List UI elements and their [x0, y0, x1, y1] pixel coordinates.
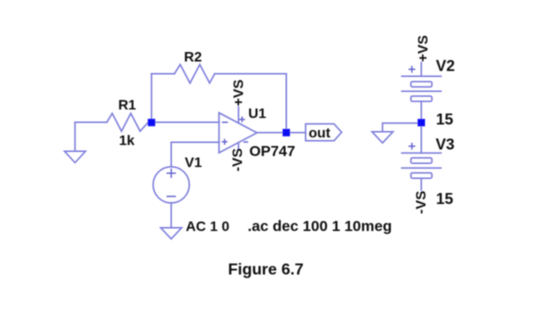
wire (V1 plus to op-amp non-inverting input) — [171, 142, 219, 166]
svg-text:-VS: -VS — [413, 191, 429, 214]
svg-text:-VS: -VS — [229, 148, 245, 171]
ground (right, supply mid-point) — [372, 132, 393, 143]
svg-text:15: 15 — [436, 191, 454, 208]
pin stub (V- power pin) — [238, 143, 240, 150]
svg-text:R2: R2 — [184, 49, 202, 65]
wire (V3 minus to -VS stub) — [420, 178, 422, 190]
marker + (V3 positive) — [409, 144, 414, 149]
marker + (V2 positive) — [409, 67, 414, 72]
svg-text:1k: 1k — [119, 132, 135, 148]
svg-text:AC 1 0: AC 1 0 — [186, 218, 230, 234]
wire (R2 left rail) — [152, 73, 175, 75]
voltage source V1 — [153, 167, 189, 203]
wire (mid node to right ground) — [383, 123, 418, 132]
svg-text:R1: R1 — [118, 96, 136, 112]
wire (node A to op-amp inverting input) — [155, 121, 219, 123]
pin marker - (inverting input) — [223, 121, 228, 123]
resistor R2 — [174, 65, 214, 84]
wire (+VS stub to V2) — [420, 63, 422, 77]
node mid (V2/V3 junction) — [418, 119, 425, 126]
wire (V2 minus to mid node) — [420, 101, 422, 119]
pin marker - (V- pin) — [244, 141, 247, 143]
ground (left, input side) — [65, 122, 86, 162]
node out (output junction) — [283, 129, 290, 136]
battery V3 — [402, 153, 441, 178]
svg-text:out: out — [309, 125, 331, 141]
svg-text:15: 15 — [436, 111, 454, 128]
wire (V1 minus to ground) — [170, 203, 172, 227]
resistor R1 — [107, 113, 148, 131]
net flag out — [306, 124, 342, 141]
svg-text:V3: V3 — [436, 137, 455, 154]
wire (left ground to R1) — [75, 121, 107, 123]
wire (node out to out flag) — [290, 132, 306, 134]
svg-text:+VS: +VS — [230, 79, 246, 106]
svg-text:V1: V1 — [185, 154, 202, 170]
op-amp U1 — [219, 113, 257, 153]
svg-text:.ac dec 100 1 10meg: .ac dec 100 1 10meg — [248, 218, 392, 235]
pin stub (V+ power pin) — [238, 107, 240, 123]
ground (below V1) — [161, 228, 182, 239]
pin marker + (V+ pin) — [240, 117, 244, 121]
wire (mid node to V3) — [420, 126, 422, 153]
marker + (V1 positive) — [167, 169, 175, 177]
svg-text:Figure 6.7: Figure 6.7 — [228, 261, 304, 278]
node A (R1/R2/op-amp inverting junction) — [148, 119, 155, 126]
svg-text:+VS: +VS — [414, 35, 430, 62]
wire (op-amp output to node out) — [257, 132, 283, 134]
battery V2 — [402, 76, 441, 101]
svg-text:V2: V2 — [436, 58, 455, 75]
svg-text:U1: U1 — [248, 105, 266, 121]
svg-text:OP747: OP747 — [249, 144, 295, 160]
wire (R2 right rail to output node) — [215, 74, 287, 129]
wire (node A up to R2 rail) — [151, 74, 153, 123]
pin marker + (non-inverting input) — [222, 140, 226, 144]
marker - (V1 negative) — [167, 195, 175, 197]
